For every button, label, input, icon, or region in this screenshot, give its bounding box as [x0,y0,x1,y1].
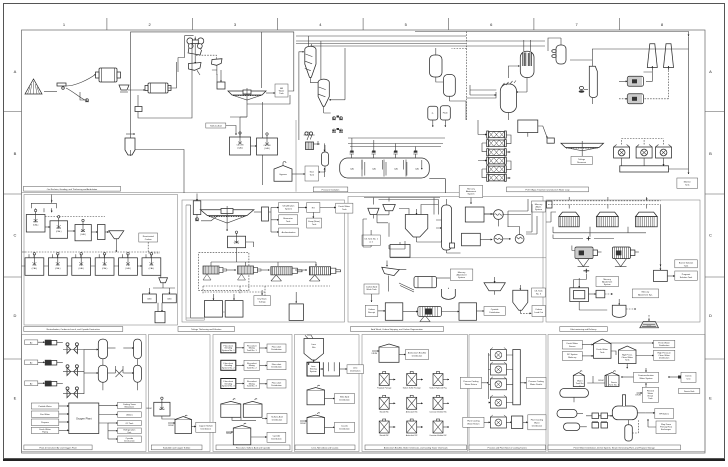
quench small box [538,126,555,143]
neut tank 3 [68,219,92,241]
svg-text:Tailings: Tailings [259,302,266,304]
EW inlet box [547,201,553,208]
tower pumps 2 [332,128,343,132]
autoclave [340,158,430,178]
svg-text:Biocide INC: Biocide INC [380,435,390,437]
offgas long line to monitor tank [592,36,688,174]
svg-text:Tank No. 2: Tank No. 2 [247,367,258,369]
tote row 3 [379,419,395,437]
svg-text:System: System [535,208,542,211]
label: tailings [178,327,235,332]
svg-text:DRUM: DRUM [372,353,378,355]
label: fresh water [548,445,681,450]
plant cooling water return [463,417,491,427]
svg-text:Ammonium Bisulfite: Ammonium Bisulfite [408,352,427,355]
acid cooler HX [306,141,320,150]
EW right feed risers [574,205,661,311]
svg-text:HP Boilers: HP Boilers [659,413,669,416]
demin hub [679,389,700,394]
process cooling water distribution [527,377,547,388]
svg-text:Tailings Thickening and Filtra: Tailings Thickening and Filtration [191,328,222,331]
svg-text:Source: Source [569,345,576,348]
lime slaker tank [320,362,340,376]
svg-text:Sulfuric Acid: Sulfuric Acid [210,125,222,128]
EW feed lines [548,197,661,209]
svg-text:Tank No. 1: Tank No. 1 [247,350,258,352]
sulfuric acid tank 1 [221,399,241,418]
svg-text:(CAL): (CAL) [102,267,108,270]
CI tank no3 label [532,288,546,297]
air train 2 [25,360,63,366]
svg-text:D: D [14,313,17,318]
ultrafiltration box [271,203,298,213]
carbon dewatering screen [382,261,407,292]
grid row ticks left [3,112,22,360]
svg-text:P₂: P₂ [432,113,434,115]
svg-text:System: System [310,370,317,373]
svg-text:Demineralization: Demineralization [638,374,654,377]
filtered water break tank [635,387,658,402]
svg-text:Abatement Sys.: Abatement Sys. [638,294,653,297]
svg-text:(CAL): (CAL) [125,267,131,270]
fresh water distribution [611,340,675,348]
mercury abatement label (POX) [459,186,483,205]
svg-text:Demin: Demin [685,375,692,377]
tote row 1 [377,372,395,390]
quench pumps [579,86,588,92]
svg-text:DRUM: DRUM [146,408,152,410]
caustic distribution [325,422,355,432]
svg-text:Evap (Brine): Evap (Brine) [308,220,320,223]
svg-text:Electrowinning and Refinery: Electrowinning and Refinery [571,328,598,331]
svg-text:Neutralization, Carbon-in-Leac: Neutralization, Carbon-in-Leach, and Cya… [47,328,101,331]
gypsum bin [274,162,292,182]
svg-text:E: E [14,396,17,401]
svg-text:Carbon: Carbon [535,308,543,311]
thickener overflow standpipe [254,207,269,221]
svg-text:CaCO3: CaCO3 [264,145,272,147]
feed pipe and standpipe [193,194,219,221]
svg-text:Process Cooling: Process Cooling [529,380,545,383]
carbon sizing screen [484,277,505,295]
strip solution tank [465,207,492,222]
svg-text:Sulfuric Acid: Sulfuric Acid [271,416,283,419]
feed manifold bracket [31,195,56,213]
svg-text:No. 3: No. 3 [536,294,542,296]
label: ore reclaim [24,186,121,191]
flocculant row 1 [221,343,236,353]
evap brine tank [307,212,322,228]
rc system makeup [562,352,593,361]
svg-text:Process and Plant Service Cool: Process and Plant Service Cooling Towers [488,447,527,450]
svg-text:Plant Cooling: Plant Cooling [531,418,544,421]
svg-text:System: System [285,208,292,211]
svg-text:(CAL): (CAL) [56,230,62,233]
carbon loadout label [520,306,545,317]
mercury abatement label EW1 [596,277,619,287]
trash screen right [196,55,222,75]
svg-text:Water: Water [534,421,540,424]
ball mill [128,83,171,93]
oxygen plant inputs [31,403,69,409]
air receiver 2a [84,365,116,382]
ore stockpile [25,79,42,94]
thickener OF tank (CAL) [228,231,254,248]
svg-text:E: E [709,396,712,401]
svg-text:Tank No. 1: Tank No. 1 [609,385,620,387]
demister fan 2 [619,94,644,104]
EW cell bank 3 [636,212,658,227]
svg-text:Biocide INC: Biocide INC [380,411,390,413]
svg-text:Solution Tank: Solution Tank [680,276,693,279]
svg-text:Water Distrib.: Water Distrib. [530,383,543,386]
section: acid wash rect [348,197,543,323]
svg-text:CaCO3: CaCO3 [237,145,245,147]
svg-text:C: C [709,233,712,238]
svg-text:Sodium Hydroxide Pkg: Sodium Hydroxide Pkg [429,387,446,390]
cyclone feed tank (frame line) [125,134,184,193]
svg-text:CND: CND [147,299,152,301]
nitric acid tank [307,385,325,405]
svg-text:Fire Water: Fire Water [40,413,50,416]
carbon receipt tank [385,303,403,321]
oxygen plant box [69,403,99,434]
strip column [436,199,461,253]
svg-text:Air: Air [30,342,33,345]
SAG mill [96,68,121,82]
label: cooling towers [469,445,546,450]
CI tank label [362,235,380,245]
label: acid wash [351,327,444,332]
svg-text:Distribution: Distribution [659,344,670,347]
label: plant air [24,445,92,450]
svg-text:Distribution: Distribution [271,366,282,369]
EW cell bank 2 [597,212,619,227]
induction furnace [612,299,636,317]
autoclave discharge [429,101,466,193]
acid wash day tank [390,242,410,257]
svg-text:(CAL): (CAL) [264,147,270,150]
mill water tank [266,84,288,97]
svg-text:Distribution: Distribution [659,357,670,360]
acid wash vessel [399,209,428,243]
svg-text:Tailings: Tailings [578,159,585,161]
filtrate tank 3 [289,292,303,320]
section: electrowinning rect [546,200,700,322]
svg-text:Reservoir: Reservoir [577,161,586,164]
reclaim feeder [44,83,66,92]
blowdown vessel [625,419,639,441]
crossover valve [116,366,124,377]
svg-text:Caustic: Caustic [341,424,348,427]
svg-text:Antiscalant INC: Antiscalant INC [406,410,418,413]
svg-text:Bioreactor: Bioreactor [283,217,293,220]
deaeration column [91,225,105,240]
barren solution tank [654,265,675,282]
svg-text:Tank No. 3: Tank No. 3 [247,386,258,388]
pressure oxidation bottom boundary [296,179,459,193]
section: neutralization CIL rect [24,195,178,326]
svg-text:Air: Air [30,383,33,386]
svg-text:Dry Stack: Dry Stack [258,298,268,301]
svg-text:Distribution: Distribution [271,384,282,387]
svg-text:Flash: Flash [443,113,449,115]
svg-text:(CAL): (CAL) [78,267,84,270]
svg-text:Carbon: Carbon [145,238,153,241]
EW sludge press b [612,247,639,267]
propane vaporizer 2 [564,423,587,431]
dashed filtrate lines [203,286,330,306]
svg-text:Lime, Nitric Acid, and Caustic: Lime, Nitric Acid, and Caustic [311,447,338,450]
grid column ticks top [107,18,619,30]
tower pumps 1 [332,116,343,120]
P tank [428,106,438,127]
oxygen plant outputs [99,402,142,408]
svg-text:Utilities: Utilities [126,414,133,417]
collection trough [620,166,689,172]
svg-text:Distribution: Distribution [339,399,350,402]
steam boiler [612,395,645,420]
label: pressure oxidation [313,187,348,192]
thickener ufeed to tanks [240,117,247,137]
lime slaking system [307,362,320,376]
svg-text:Corrosion Inhibitor INC: Corrosion Inhibitor INC [429,434,447,437]
svg-text:(CAL): (CAL) [55,267,61,270]
svg-text:(CAL): (CAL) [237,147,243,150]
carbon acid wash tank label [364,284,379,302]
svg-text:Distribution: Distribution [271,437,282,440]
demin tank 2 [573,371,584,388]
lime distribution [340,365,364,374]
filter presses [203,248,340,281]
caustic tank [300,413,325,434]
svg-text:System No. 1: System No. 1 [222,349,235,352]
svg-text:CIL Tank No. 1: CIL Tank No. 1 [364,239,378,241]
EW sludge valve [583,269,589,273]
svg-text:Make-up: Make-up [568,357,577,359]
flash vessel 1 [430,48,444,82]
cyanide distribution label [477,307,506,316]
svg-text:Water Return: Water Return [465,383,478,386]
section: ore reclaim grinding [22,191,297,193]
air dryer 3 [63,387,84,398]
thickener underflow [230,95,290,117]
label: flocculant [216,445,290,450]
label: neutralization CIL [24,327,123,332]
carbon attritioner [403,307,442,322]
svg-text:Distribution: Distribution [350,369,361,372]
svg-text:(CAL): (CAL) [149,267,155,270]
fresh water tank [594,339,617,358]
svg-text:System: System [468,193,475,196]
svg-text:Carbon: Carbon [368,308,376,311]
svg-text:Pressure Oxidation: Pressure Oxidation [322,189,341,192]
svg-text:Acclimatization: Acclimatization [282,231,297,234]
feed pumps [586,413,612,428]
filter press dashed enclosure [199,253,249,291]
svg-text:DRUM: DRUM [598,380,604,382]
letdown vessel [467,81,517,121]
svg-text:Distribution: Distribution [532,424,543,427]
plant cooling box [512,416,528,429]
svg-text:Unit: Unit [687,377,691,380]
pump box 2 [135,95,142,112]
svg-text:Distribution: Distribution [271,348,282,351]
EW sludge filter [570,281,589,302]
pregnant solution tank label [675,271,698,280]
dashed lime line [25,217,160,253]
blowdown primary heat exchanger box [648,419,676,434]
svg-text:Fresh Water: Fresh Water [658,341,670,344]
kiln quench tank [442,288,456,300]
HX exchanger circle 1 [494,210,504,227]
HP clean water tank [619,346,637,369]
feed line to boxes [186,205,271,318]
svg-text:Gypsum: Gypsum [279,174,287,176]
dore bars [640,315,659,328]
svg-text:Distribution: Distribution [489,311,500,314]
sampler box [217,70,225,89]
seal tank [292,166,319,181]
svg-text:RC System: RC System [567,353,578,356]
label: ammonium bisulfite [365,445,467,450]
tote row 2 [379,395,395,413]
tailings thickener [200,206,254,231]
neut tank 1 [26,209,45,232]
mercury abatement label small [532,201,546,212]
svg-text:Mercury: Mercury [642,291,650,294]
air train 3 [25,381,63,387]
acclimatization box [271,228,298,236]
svg-text:Cyanide: Cyanide [491,309,499,311]
section: tailings rect [182,200,345,322]
svg-text:Ultrafiltration: Ultrafiltration [283,205,296,208]
flocculant row 2 [221,360,236,370]
tailings reservoir label [571,157,592,165]
EW cell bank 1 [559,212,579,227]
svg-text:System: System [604,283,611,286]
propane tank [560,389,589,403]
demin unit box [668,372,696,382]
svg-text:System: System [458,276,465,279]
cooling tower cells [488,348,512,409]
air dryer 2 [63,365,84,376]
demister fan 1 [619,76,644,86]
mercury abatement label regen [437,269,473,280]
kerosene screen 2 [377,205,395,223]
fresh water source [562,340,593,349]
label: lime [295,445,355,450]
grid column numbers [63,22,664,27]
svg-text:DADO: DADO [159,408,165,411]
svg-text:Water Return: Water Return [467,422,480,425]
grid row ticks right [705,112,724,360]
svg-text:NEU: NEU [33,222,38,224]
acidulation tower 2 [318,48,345,113]
svg-text:System No. 3: System No. 3 [222,385,235,388]
acid wash internal pipes [363,219,546,258]
svg-text:Antiscalant INC: Antiscalant INC [406,434,418,437]
svg-text:DRUM: DRUM [300,423,306,425]
row3 section rects [22,335,706,452]
svg-text:(CAL): (CAL) [33,224,39,227]
sulfuric acid distribution [262,414,287,424]
svg-text:Propylate Package: Propylate Package [377,387,391,390]
svg-text:Distribution: Distribution [412,355,423,358]
RO box [298,203,320,213]
bioreactor tank box [271,215,298,225]
svg-text:Sodium Sulfite Package: Sodium Sulfite Package [403,387,421,390]
tailings thickener (quench) [561,141,604,156]
air receiver 1a [84,339,116,359]
soda ash tank [146,397,175,420]
svg-text:Piping: Piping [42,432,49,434]
svg-text:CND: CND [167,299,172,301]
svg-text:Ore Reclaim, Grinding, and Thi: Ore Reclaim, Grinding, and Thickening an… [47,188,98,191]
svg-text:Acid Wash, Carbon Stripping, a: Acid Wash, Carbon Stripping, and Carbon … [371,328,424,331]
svg-text:D: D [709,313,712,318]
process cooling water return [460,377,488,388]
EW sludge press a [572,246,602,267]
label: soda ash [151,445,202,450]
acidulation tower 1 [305,46,318,83]
svg-text:Propane: Propane [41,421,50,424]
pump station 1 [80,92,89,102]
steam heater vessel [508,40,534,92]
vertical capsule near seal tank [319,145,329,172]
neut tank 2 [45,216,68,239]
air receiver 1b [123,339,141,359]
regen kiln [399,277,437,293]
svg-text:Monitor: Monitor [684,181,691,184]
capsule arrows [324,143,326,177]
svg-text:B: B [709,151,712,156]
svg-text:Potable Water: Potable Water [38,405,51,408]
svg-text:C: C [14,233,17,238]
svg-text:Pregnant: Pregnant [682,273,691,276]
svg-text:CIL Tank: CIL Tank [534,291,543,293]
air receiver 2b [123,365,141,382]
svg-text:Reactivated: Reactivated [143,235,155,238]
svg-text:Destruction: Destruction [124,439,135,442]
lime silo [304,335,324,362]
fresh water tank box [320,203,353,213]
svg-text:DRUM: DRUM [635,395,641,397]
cyanide distribution [251,432,286,442]
monitor tank [677,178,698,188]
svg-text:DRUM: DRUM [168,425,174,427]
svg-text:Distribution: Distribution [339,427,350,430]
heater circle [508,227,524,244]
instrument air drop [103,359,138,391]
grinding loop pipe [131,32,305,192]
eluate tank [462,233,493,246]
demin tank 1 [587,371,619,387]
cyanide tank [226,423,251,445]
quench tank [518,120,538,137]
svg-text:Soda Ash and Copper Sulfate: Soda Ash and Copper Sulfate [163,447,191,450]
svg-text:Flocculant, Sulfuric Acid and: Flocculant, Sulfuric Acid and Cyanide [236,447,271,450]
tails tank [155,303,165,323]
svg-text:Blowdown: Blowdown [125,407,135,409]
stack 1 [644,44,658,82]
svg-text:Fresh Water: Fresh Water [567,342,579,345]
svg-text:System No. 2: System No. 2 [222,366,235,369]
sulfuric acid label [206,123,236,135]
svg-text:RO: RO [312,208,316,210]
svg-text:Exchanger: Exchanger [661,428,671,431]
svg-text:B: B [14,151,17,156]
